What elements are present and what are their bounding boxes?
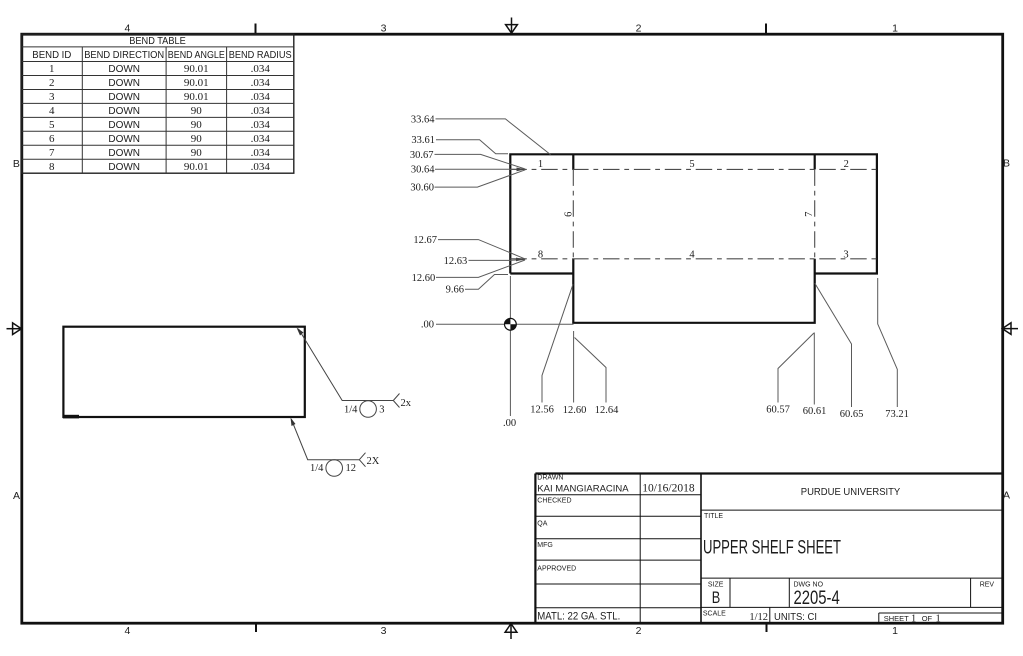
weld symbol 1: [298, 329, 399, 418]
bottom dimension leaders left: [542, 284, 606, 402]
bottom dimension leaders right: [778, 278, 897, 407]
svg-text:2x: 2x: [401, 398, 412, 409]
weld symbol 2: [291, 420, 365, 477]
svg-text:73.21: 73.21: [885, 409, 909, 420]
svg-text:3: 3: [379, 405, 384, 416]
svg-text:SHEET: SHEET: [884, 614, 909, 623]
svg-text:DOWN: DOWN: [108, 120, 140, 131]
svg-text:3: 3: [381, 23, 387, 35]
svg-text:5: 5: [49, 119, 55, 131]
svg-text:3: 3: [381, 625, 387, 637]
svg-text:5: 5: [689, 159, 694, 170]
svg-text:DOWN: DOWN: [108, 78, 140, 89]
svg-text:KAI MANGIARACINA: KAI MANGIARACINA: [537, 483, 629, 494]
svg-text:1: 1: [892, 23, 898, 35]
svg-text:MFG: MFG: [537, 542, 553, 549]
dimension leaders mid group: [436, 240, 525, 290]
svg-text:APPROVED: APPROVED: [537, 566, 576, 573]
svg-text:12.60: 12.60: [563, 405, 587, 416]
svg-text:.034: .034: [251, 147, 271, 159]
svg-text:.034: .034: [251, 133, 271, 145]
svg-text:.034: .034: [251, 77, 271, 89]
svg-text:90.01: 90.01: [184, 63, 209, 75]
svg-text:60.61: 60.61: [803, 406, 827, 417]
svg-text:MATL: 22 GA. STL.: MATL: 22 GA. STL.: [537, 611, 620, 623]
svg-text:12.63: 12.63: [444, 256, 468, 267]
svg-text:1: 1: [892, 625, 898, 637]
svg-text:1/4: 1/4: [344, 405, 358, 416]
svg-text:9.66: 9.66: [446, 285, 464, 296]
svg-text:30.64: 30.64: [411, 165, 435, 176]
svg-text:DRAWN: DRAWN: [537, 474, 563, 481]
svg-text:BEND RADIUS: BEND RADIUS: [229, 50, 292, 61]
svg-text:B: B: [1003, 158, 1010, 170]
svg-text:.034: .034: [251, 161, 271, 173]
svg-text:SCALE: SCALE: [703, 611, 726, 618]
svg-text:12.56: 12.56: [530, 405, 554, 416]
svg-text:DOWN: DOWN: [108, 134, 140, 145]
dimension leaders top group: [435, 119, 551, 187]
svg-text:30.67: 30.67: [410, 150, 434, 161]
svg-text:.034: .034: [251, 63, 271, 75]
svg-text:DOWN: DOWN: [108, 106, 140, 117]
datum target symbol: [505, 318, 517, 330]
svg-text:10/16/2018: 10/16/2018: [642, 483, 695, 495]
svg-text:BEND DIRECTION: BEND DIRECTION: [84, 50, 164, 61]
svg-text:2X: 2X: [367, 456, 380, 467]
svg-text:DOWN: DOWN: [108, 92, 140, 103]
svg-text:TITLE: TITLE: [704, 513, 723, 520]
svg-text:PURDUE UNIVERSITY: PURDUE UNIVERSITY: [801, 487, 901, 498]
title block small labels: [537, 474, 994, 617]
svg-text:2205-4: 2205-4: [794, 588, 840, 609]
svg-text:1/12: 1/12: [749, 612, 768, 623]
svg-text:6: 6: [563, 212, 574, 217]
svg-text:4: 4: [49, 105, 55, 117]
svg-text:BEND TABLE: BEND TABLE: [129, 36, 186, 47]
bend line 8 4 3: [510, 258, 877, 260]
svg-text:3: 3: [49, 91, 55, 103]
svg-text:A: A: [1003, 490, 1010, 502]
svg-text:DOWN: DOWN: [108, 162, 140, 173]
side view rectangle: [63, 327, 305, 417]
svg-text:4: 4: [124, 625, 130, 637]
svg-text:33.61: 33.61: [411, 135, 435, 146]
svg-text:60.65: 60.65: [840, 409, 864, 420]
svg-text:.00: .00: [421, 320, 434, 331]
svg-text:REV: REV: [980, 582, 995, 589]
bottom dimension text right: [766, 405, 909, 421]
svg-text:12.64: 12.64: [595, 405, 619, 416]
svg-text:6: 6: [49, 133, 55, 145]
svg-text:1: 1: [49, 63, 55, 75]
svg-text:90: 90: [191, 119, 203, 131]
svg-text:2: 2: [636, 625, 642, 637]
bend line 7: [814, 169, 816, 258]
svg-text:DOWN: DOWN: [108, 64, 140, 75]
svg-text:8: 8: [49, 161, 55, 173]
bend numbers: [538, 159, 849, 260]
svg-text:BEND ID: BEND ID: [32, 50, 71, 61]
svg-text:1: 1: [936, 614, 941, 625]
svg-text:7: 7: [804, 212, 815, 217]
svg-text:A: A: [13, 490, 20, 502]
svg-text:33.64: 33.64: [411, 114, 435, 125]
svg-text:.034: .034: [251, 119, 271, 131]
bottom dimension text left: [530, 405, 619, 417]
svg-text:12: 12: [346, 463, 357, 474]
svg-text:2: 2: [49, 77, 55, 89]
svg-text:90: 90: [191, 133, 203, 145]
bend table: [22, 34, 294, 173]
svg-text:12.67: 12.67: [413, 235, 437, 246]
svg-text:90.01: 90.01: [184, 91, 209, 103]
svg-text:1: 1: [538, 159, 543, 170]
svg-text:8: 8: [538, 249, 543, 260]
svg-text:OF: OF: [922, 614, 933, 623]
svg-text:90.01: 90.01: [184, 161, 209, 173]
svg-text:3: 3: [843, 249, 848, 260]
svg-text:12.60: 12.60: [412, 273, 436, 284]
bend line 6: [572, 169, 574, 258]
svg-text:BEND ANGLE: BEND ANGLE: [168, 50, 225, 61]
svg-text:30.60: 30.60: [410, 183, 434, 194]
svg-text:1/4: 1/4: [310, 463, 324, 474]
dimension text mid group: [412, 235, 468, 296]
svg-text:60.57: 60.57: [766, 405, 790, 416]
svg-text:90: 90: [191, 105, 203, 117]
dimension text top group: [410, 114, 435, 193]
svg-text:QA: QA: [537, 521, 547, 528]
svg-text:UNITS: CI: UNITS: CI: [774, 611, 817, 623]
svg-text:7: 7: [49, 147, 55, 159]
svg-text:SIZE: SIZE: [708, 582, 724, 589]
svg-text:2: 2: [636, 23, 642, 35]
bend line 1 5 2: [510, 168, 877, 170]
svg-text:4: 4: [124, 23, 130, 35]
svg-text:B: B: [13, 158, 20, 170]
svg-text:CHECKED: CHECKED: [537, 498, 571, 505]
svg-text:.034: .034: [251, 91, 271, 103]
svg-text:2: 2: [844, 159, 849, 170]
svg-text:B: B: [712, 589, 721, 607]
svg-text:4: 4: [689, 249, 695, 260]
title block: [535, 474, 1002, 623]
svg-text:UPPER SHELF SHEET: UPPER SHELF SHEET: [703, 538, 841, 559]
svg-text:90: 90: [191, 147, 203, 159]
svg-text:.00: .00: [503, 418, 516, 429]
bend table text: [32, 36, 292, 173]
svg-text:90.01: 90.01: [184, 77, 209, 89]
svg-text:.034: .034: [251, 105, 271, 117]
datum lines: [436, 276, 574, 416]
svg-text:1: 1: [911, 614, 916, 625]
svg-text:DOWN: DOWN: [108, 148, 140, 159]
flat pattern outline: [510, 154, 877, 322]
